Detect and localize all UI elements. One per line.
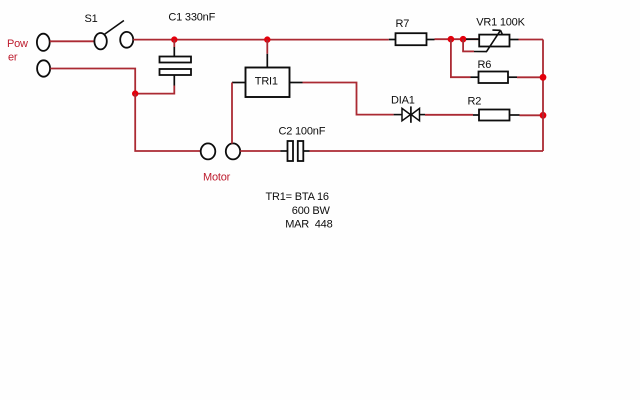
svg-text:Pow: Pow	[7, 38, 28, 50]
wire TRI1 gate to DIA1	[290, 83, 394, 115]
wire motor M2 to C2	[240, 150, 280, 152]
wire C1 bottom lead	[135, 75, 174, 94]
capacitor C1	[160, 57, 192, 76]
resistor R2	[473, 110, 520, 121]
label Power	[7, 38, 28, 63]
wire node A down to R6	[451, 39, 471, 77]
resistor R6	[471, 72, 518, 84]
wire R2 to right rail	[520, 114, 544, 116]
switch S1	[94, 21, 133, 50]
motor terminal M2	[226, 143, 240, 159]
node A (R7 right junction)	[448, 36, 455, 43]
wire VR1 wiper	[462, 39, 487, 51]
power terminal T2	[37, 60, 50, 76]
wire TRI1 top lead	[266, 40, 268, 68]
triac TRI1	[246, 68, 290, 98]
wire T1 to S1	[50, 40, 95, 42]
svg-text:C2 100nF: C2 100nF	[279, 126, 326, 138]
svg-text:S1: S1	[85, 13, 98, 25]
svg-text:VR1 100K: VR1 100K	[476, 17, 525, 29]
potentiometer VR1	[466, 30, 519, 51]
diac DIA1	[394, 106, 425, 122]
svg-text:er: er	[8, 51, 18, 63]
svg-text:DIA1: DIA1	[391, 95, 415, 107]
node TRI1 top junction	[264, 36, 270, 42]
capacitor C2	[280, 141, 309, 161]
wire S1 to R7 (top rail)	[133, 39, 389, 41]
motor terminal M1	[201, 143, 216, 159]
wire T2 to left rail	[50, 69, 135, 94]
node C1 top junction	[171, 36, 177, 42]
wire TRI1 left pin to motor M2	[232, 83, 246, 144]
power terminal T1	[37, 34, 50, 51]
wire C2 to right rail (bottom)	[310, 150, 544, 152]
svg-text:TRI1: TRI1	[255, 75, 278, 87]
svg-text:TR1= BTA 16: TR1= BTA 16	[266, 191, 329, 203]
svg-text:R6: R6	[478, 59, 492, 71]
node R6 right junction	[540, 74, 547, 81]
svg-text:R2: R2	[468, 96, 482, 108]
node left junction	[132, 90, 138, 96]
wire left rail down to motor	[135, 94, 201, 151]
svg-text:MAR 448: MAR 448	[285, 219, 332, 231]
wire VR1 to right rail	[519, 39, 544, 41]
node B (wiper junction)	[460, 36, 467, 43]
resistor R7	[389, 33, 435, 45]
wire DIA1 to R2	[425, 114, 473, 116]
node R2 right junction	[540, 112, 547, 119]
wire R6 to right rail	[517, 76, 543, 78]
svg-text:C1 330nF: C1 330nF	[168, 12, 215, 24]
wire right rail vertical	[542, 40, 544, 152]
svg-text:R7: R7	[396, 18, 410, 30]
wire C1 top lead	[173, 40, 175, 57]
svg-text:600 BW: 600 BW	[292, 205, 331, 217]
wire R7 to VR1	[435, 38, 479, 40]
svg-text:Motor: Motor	[203, 172, 231, 184]
